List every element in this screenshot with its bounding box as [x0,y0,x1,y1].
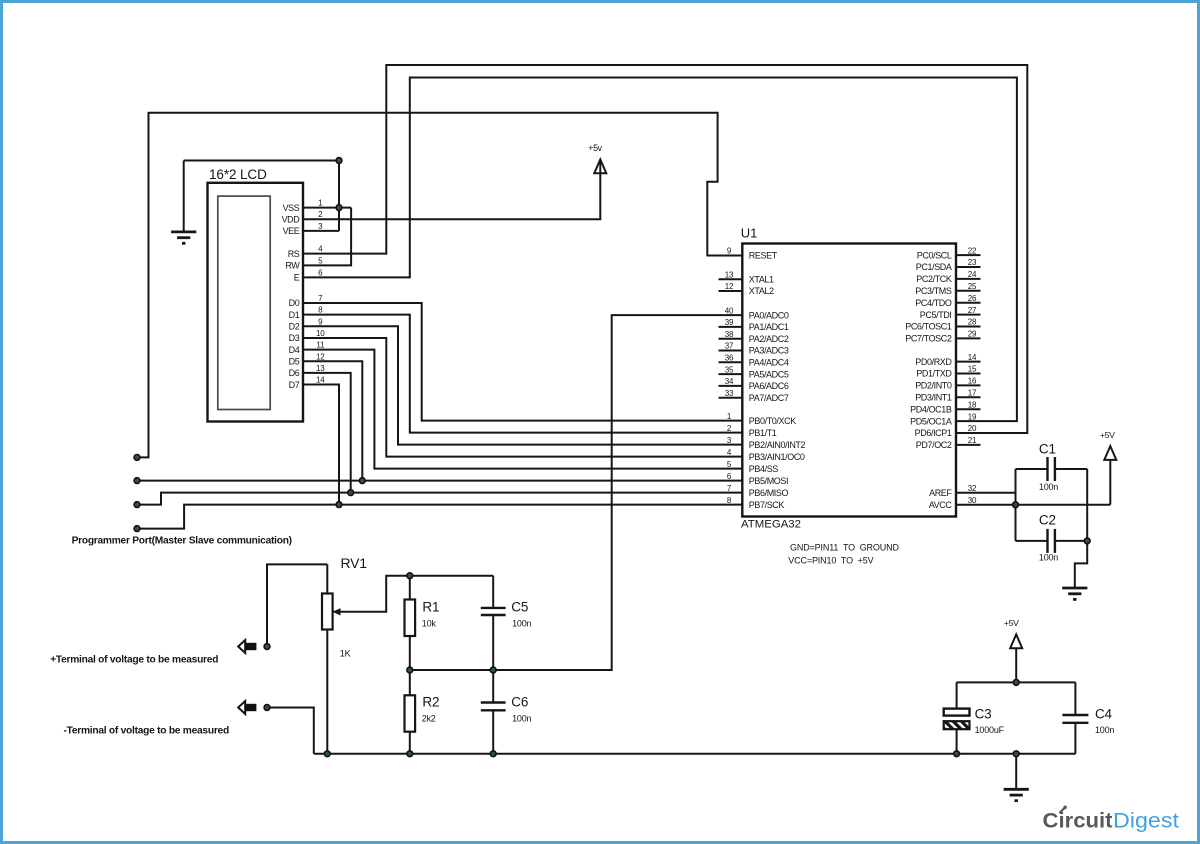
svg-text:7: 7 [318,294,323,303]
svg-text:PD7/OC2: PD7/OC2 [916,440,952,450]
svg-text:PA7/ADC7: PA7/ADC7 [749,393,789,403]
svg-text:+5V: +5V [1004,618,1019,628]
U1 pin 7 PB6/MISO [727,484,789,498]
node C3 bottom [954,751,960,757]
wire +5V stem (AVCC) [1109,460,1111,505]
svg-text:VDD: VDD [282,214,301,224]
svg-text:2: 2 [318,210,323,219]
U1 pin 35 PA5/ADC5 [719,365,789,379]
U1 pin 5 PB4/SS [727,460,778,474]
node R2 bottom [407,751,413,757]
svg-text:PA3/ADC3: PA3/ADC3 [749,346,789,356]
svg-text:C2: C2 [1039,513,1056,528]
svg-text:R1: R1 [422,600,439,615]
wire ground rail to LCD VSS vertical [184,160,339,162]
svg-text:PA1/ADC1: PA1/ADC1 [749,322,789,332]
wire VSS to RW loop [303,208,351,266]
U1 pin 34 PA6/ADC6 [719,377,789,391]
svg-text:100n: 100n [1039,552,1058,562]
wire +terminal to RV1 top [267,564,327,646]
node ground C3/C4 [1013,751,1019,757]
label R2 [422,695,439,710]
wire C1/C2 right vertical [1086,469,1088,541]
svg-text:8: 8 [318,306,323,315]
node VSS junction [336,205,342,211]
svg-text:PA5/ADC5: PA5/ADC5 [749,369,789,379]
label R1 [422,600,439,615]
wire C5 branch upper [492,576,494,608]
wire programmer SCK to PB7 line [137,505,339,529]
svg-text:34: 34 [725,377,734,386]
svg-text:6: 6 [318,268,323,277]
svg-text:1K: 1K [340,649,351,659]
ground (LCD) [171,232,196,243]
svg-text:XTAL2: XTAL2 [749,286,774,296]
wire LCD D3 to U1 PB3 [303,338,742,457]
label ATMEGA32 [741,519,801,531]
svg-text:PC6/TOSC1: PC6/TOSC1 [905,322,952,332]
svg-text:PD1/TXD: PD1/TXD [916,369,952,379]
label RV1 [341,555,368,571]
svg-text:29: 29 [968,330,977,339]
svg-text:22: 22 [968,246,977,255]
svg-text:1000uF: 1000uF [975,725,1005,735]
svg-text:PC5/TDI: PC5/TDI [920,310,952,320]
svg-text:PA0/ADC0: PA0/ADC0 [749,310,789,320]
svg-text:1: 1 [318,199,323,208]
svg-text:AREF: AREF [929,488,952,498]
U1 pin 30 AVCC [929,496,977,510]
svg-text:D1: D1 [289,310,300,320]
ground (C2) [1062,588,1087,599]
svg-text:+5V: +5V [1100,430,1115,440]
resistor R1 body [405,600,416,637]
U1 pin 12 XTAL2 [719,282,775,296]
svg-text:18: 18 [968,400,977,409]
svg-text:16: 16 [968,377,977,386]
LCD pin 11 D4 [289,341,325,355]
svg-text:Circuit: Circuit [1043,809,1113,833]
svg-text:30: 30 [968,496,977,505]
U1 pin 1 PB0/T0/XCK [727,412,796,426]
wire +5V stem to C3 rail [1015,648,1017,683]
svg-text:19: 19 [968,412,977,421]
svg-text:PC1/SDA: PC1/SDA [916,262,952,272]
U1 pin 16 PD2/INT0 [915,377,980,391]
label 100n C4 [1095,725,1114,735]
svg-text:14: 14 [316,376,325,385]
wire ground stem (C3/C4) [1015,754,1017,789]
wire C4 branch upper [1074,682,1076,715]
svg-text:PC4/TDO: PC4/TDO [915,298,952,308]
U1 pin 24 PC2/TCK [916,270,980,284]
svg-text:21: 21 [968,436,977,445]
wire LCD D4 to U1 PB4 [303,350,742,469]
label 10k [422,619,437,629]
svg-text:PD4/OC1B: PD4/OC1B [910,404,952,414]
capacitor C4 plates [1062,715,1088,723]
svg-text:PC7/TOSC2: PC7/TOSC2 [905,334,952,344]
svg-text:26: 26 [968,294,977,303]
LCD pin 8 D1 [289,306,323,320]
label 100n C2 [1039,552,1058,562]
node C5/C6 mid [490,667,496,673]
U1 pin 39 PA1/ADC1 [719,318,789,332]
wire VDD to +5v [303,161,600,220]
svg-text:15: 15 [968,365,977,374]
LCD pin 10 D3 [289,329,326,343]
svg-text:PB7/SCK: PB7/SCK [749,500,785,510]
wire LCD D7 to U1 PB7 [303,385,742,505]
label C6 [511,695,528,710]
node programmer pin1 [134,455,140,461]
note VCC=PIN10 TO +5V [788,556,873,566]
wire RESET net: programmer pin1 to U1 RESET [137,113,742,458]
wire LCD VSS stub [303,207,351,209]
wire C1 right rail [1055,468,1087,470]
wire C3 branch lower [956,729,958,754]
U1 pin 26 PC4/TDO [915,294,980,308]
U1 pin 4 PB3/AIN1/OC0 [727,448,805,462]
-terminal arrow [238,701,256,714]
svg-text:37: 37 [725,342,734,351]
LCD pin 6 E [294,268,323,282]
svg-text:XTAL1: XTAL1 [749,275,774,285]
capacitor C3 polarized plate bottom (hatched) [944,721,970,729]
label C1 [1039,442,1056,457]
U1 pin 27 PC5/TDI [920,306,981,320]
ground (C3/C4) [1004,789,1029,800]
svg-text:VCC=PIN10 TO +5V: VCC=PIN10 TO +5V [788,556,873,566]
label C4 [1095,707,1113,722]
svg-text:PD2/INT0: PD2/INT0 [915,381,952,391]
label 100n C5 [512,619,531,629]
wire programmer MOSI to PB5 line [137,480,362,482]
U1 pin 3 PB2/AIN0/INT2 [727,436,806,450]
svg-text:R2: R2 [422,695,439,710]
svg-text:D6: D6 [289,368,300,378]
svg-text:38: 38 [725,330,734,339]
svg-text:PB0/T0/XCK: PB0/T0/XCK [749,416,796,426]
node +5V C3/C4 rail [1013,680,1019,686]
label C2 [1039,513,1056,528]
svg-text:PB4/SS: PB4/SS [749,464,779,474]
node D6/PB6/MISO [348,490,354,496]
svg-text:ATMEGA32: ATMEGA32 [741,519,801,531]
svg-text:PB2/AIN0/INT2: PB2/AIN0/INT2 [749,440,806,450]
svg-text:Digest: Digest [1113,809,1179,833]
U1 pin 8 PB7/SCK [727,496,785,510]
wire LCD D6 to U1 PB6 [303,373,742,493]
wire C1 left rail [1016,468,1048,470]
svg-text:5: 5 [318,256,323,265]
LCD pin 3 VEE [283,222,324,236]
svg-text:U1: U1 [741,226,758,241]
svg-text:28: 28 [968,318,977,327]
wire C2 right rail [1055,540,1087,542]
svg-text:PD6/ICP1: PD6/ICP1 [915,428,952,438]
svg-text:PB6/MISO: PB6/MISO [749,488,789,498]
svg-text:9: 9 [318,317,323,326]
node VSS-gnd rail [336,158,342,164]
wire C4 branch lower [1074,723,1076,754]
wire RV1 vertical [326,564,328,753]
node -terminal [264,705,270,711]
LCD pin 5 RW [285,256,323,270]
wire LCD E to U1 PD5/OC1A via top inner rail [303,78,1017,422]
U1 pin 17 PD3/INT1 [915,389,980,403]
power +5v (LCD VDD) [588,143,606,173]
label -Terminal [64,725,229,736]
svg-text:VSS: VSS [283,203,300,213]
capacitor C5 plates [481,608,506,615]
svg-text:3: 3 [318,222,323,231]
wire C1/C2 left vertical [1015,469,1017,541]
U1 pin 23 PC1/SDA [916,258,981,272]
U1 pin 28 PC6/TOSC1 [905,318,980,332]
LCD pin 4 RS [288,245,323,259]
wire LCD D1 to U1 PB1 [303,315,742,433]
wire R1 branch [409,576,411,670]
wire R2 branch [409,670,411,754]
svg-text:23: 23 [968,258,977,267]
svg-text:36: 36 [725,354,734,363]
svg-text:10: 10 [316,329,325,338]
svg-text:PC3/TMS: PC3/TMS [915,286,952,296]
label 100n C6 [512,714,531,724]
LCD pin 13 D6 [289,364,326,378]
node C2 right [1084,538,1090,544]
svg-text:D2: D2 [289,322,300,332]
U1 pin 13 XTAL1 [719,271,775,285]
power +5V (AVCC) [1100,430,1116,460]
wire C3 branch upper [956,682,958,709]
potentiometer RV1 body [322,594,333,630]
U1 pin 9 RESET [727,247,778,261]
svg-text:PB5/MOSI: PB5/MOSI [749,476,788,486]
wire LCD VEE stub [303,230,339,232]
label C5 [511,600,528,615]
U1 pin 22 PC0/SCL [917,246,981,260]
U1 pin 19 PD5/OC1A [910,412,977,426]
svg-text:D0: D0 [289,298,300,308]
svg-text:C1: C1 [1039,442,1056,457]
node R1/R2 mid [407,667,413,673]
wire C3/C4 top rail [957,681,1076,683]
node RV1 bottom [324,751,330,757]
U1 pin 14 PD0/RXD [915,353,980,367]
U1 pin 32 AREF [929,484,977,498]
svg-text:13: 13 [725,271,734,280]
svg-text:RS: RS [288,249,300,259]
power +5V (C3/C4) [1004,618,1022,648]
svg-text:GND=PIN11 TO GROUND: GND=PIN11 TO GROUND [790,543,899,553]
wire AREF to C1 left rail [956,492,1016,494]
node +terminal [264,644,270,650]
U1 pin 25 PC3/TMS [915,282,980,296]
node C6 bottom [490,751,496,757]
svg-text:PD0/RXD: PD0/RXD [915,357,952,367]
svg-text:100n: 100n [512,619,531,629]
svg-text:PD3/INT1: PD3/INT1 [915,393,952,403]
wire C6 branch upper [492,670,494,703]
svg-text:PB3/AIN1/OC0: PB3/AIN1/OC0 [749,452,805,462]
U1 pin 18 PD4/OC1B [910,400,980,414]
wire PA0/ADC0 to divider mid rail [410,315,743,670]
svg-text:RW: RW [285,261,300,271]
svg-text:33: 33 [725,389,734,398]
label 1K [340,649,351,659]
capacitor C2 plates [1048,529,1055,553]
svg-text:24: 24 [968,270,977,279]
svg-text:10k: 10k [422,619,437,629]
node D7/PB7/SCK [336,502,342,508]
svg-text:C4: C4 [1095,707,1113,722]
svg-text:40: 40 [725,306,734,315]
svg-text:32: 32 [968,484,977,493]
U1 pin 20 PD6/ICP1 [915,424,977,438]
U1 pin 6 PB5/MOSI [727,472,788,486]
LCD pin 1 VSS [283,199,324,213]
svg-text:C3: C3 [975,707,992,722]
LCD screen inner rect [218,196,270,409]
op-amp U1 box [742,244,956,517]
label C3 [975,707,992,722]
svg-text:4: 4 [318,245,323,254]
LCD pin 12 D5 [289,352,326,366]
svg-text:+Terminal of voltage to be mea: +Terminal of voltage to be measured [50,654,218,665]
svg-text:100n: 100n [1039,482,1058,492]
U1 pin 37 PA3/ADC3 [719,342,789,356]
svg-text:100n: 100n [512,714,531,724]
node programmer pin3 [134,502,140,508]
svg-text:PC0/SCL: PC0/SCL [917,250,952,260]
logo CircuitDigest [1043,806,1180,833]
svg-text:RESET: RESET [749,251,778,261]
capacitor C3 polarized plate top [944,709,970,716]
svg-text:D7: D7 [289,380,300,390]
svg-text:Programmer Port(Master Slave c: Programmer Port(Master Slave communicati… [72,536,292,547]
svg-text:D4: D4 [289,345,300,355]
node AVCC/AREF rail [1013,502,1019,508]
wire RV1 wiper to R1/C5 top rail [334,576,494,612]
svg-text:E: E [294,273,300,283]
svg-text:39: 39 [725,318,734,327]
wire -terminal to ground rail [267,708,314,754]
label U1 [741,226,758,241]
U1 pin 29 PC7/TOSC2 [905,330,980,344]
capacitor C6 plates [481,703,506,711]
wire LCD RS to U1 PD6/ICP1 via top outer rail [303,65,1027,433]
resistor R2 body [405,695,416,731]
svg-text:16*2 LCD: 16*2 LCD [209,167,267,182]
svg-text:13: 13 [316,364,325,373]
svg-text:PB1/T1: PB1/T1 [749,428,777,438]
svg-text:PD5/OC1A: PD5/OC1A [910,416,952,426]
LCD pin 2 VDD [282,210,324,224]
LCD module box [208,183,304,422]
svg-text:RV1: RV1 [341,555,368,571]
wire LCD D0 to U1 PB0 [303,303,742,421]
svg-text:17: 17 [968,389,977,398]
wire C2 to ground [1075,541,1087,587]
node programmer pin4 [134,526,140,532]
svg-text:AVCC: AVCC [929,500,953,510]
node D5/PB5/MOSI [359,478,365,484]
svg-text:C5: C5 [511,600,528,615]
node programmer pin2 [134,478,140,484]
U1 pin 2 PB1/T1 [727,424,777,438]
wire LCD D2 to U1 PB2 [303,326,742,444]
U1 pin 40 PA0/ADC0 [725,306,789,320]
note GND=PIN11 TO GROUND [790,543,899,553]
wire ground stem (LCD) [183,161,185,232]
capacitor C1 plates [1048,457,1055,481]
label +Terminal [50,654,218,665]
svg-text:PC2/TCK: PC2/TCK [916,274,952,284]
U1 pin 33 PA7/ADC7 [719,389,789,403]
svg-text:14: 14 [968,353,977,362]
svg-text:27: 27 [968,306,977,315]
svg-text:35: 35 [725,365,734,374]
LCD pin 7 D0 [289,294,323,308]
U1 pin 38 PA2/ADC2 [719,330,789,344]
RV1 wiper arrowhead [333,608,341,615]
wire C5 branch lower [492,615,494,670]
label 16*2 LCD [209,167,267,182]
wire LCD D5 to U1 PB5 [303,361,742,480]
wire VSS junction vertical to VEE [338,161,340,231]
+terminal arrow [238,640,256,653]
node R1 top [407,573,413,579]
LCD pin 14 D7 [289,376,326,390]
label 100n C1 [1039,482,1058,492]
U1 pin 21 PD7/OC2 [916,436,981,450]
svg-text:C6: C6 [511,695,528,710]
label 1000uF [975,725,1005,735]
svg-text:-Terminal of voltage to be mea: -Terminal of voltage to be measured [64,725,229,736]
wire programmer MISO to PB6 line [137,493,351,505]
svg-text:2k2: 2k2 [422,714,436,724]
wire AVCC to +5V [956,504,1110,506]
svg-text:11: 11 [316,341,325,350]
svg-text:12: 12 [725,282,734,291]
U1 pin 15 PD1/TXD [916,365,980,379]
svg-text:PA2/ADC2: PA2/ADC2 [749,334,789,344]
svg-text:12: 12 [316,352,325,361]
svg-text:VEE: VEE [283,226,300,236]
svg-text:D5: D5 [289,356,300,366]
svg-text:25: 25 [968,282,977,291]
wire C2 left rail [1016,540,1048,542]
svg-text:D3: D3 [289,333,300,343]
wire bottom ground rail [314,753,1076,755]
svg-text:PA6/ADC6: PA6/ADC6 [749,381,789,391]
svg-text:+5v: +5v [588,143,602,153]
LCD pin 9 D2 [289,317,323,331]
wire C6 branch lower [492,710,494,754]
svg-text:100n: 100n [1095,725,1114,735]
U1 pin 36 PA4/ADC4 [719,354,789,368]
label 2k2 [422,714,436,724]
label Programmer Port [72,536,292,547]
svg-text:20: 20 [968,424,977,433]
svg-text:PA4/ADC4: PA4/ADC4 [749,358,789,368]
